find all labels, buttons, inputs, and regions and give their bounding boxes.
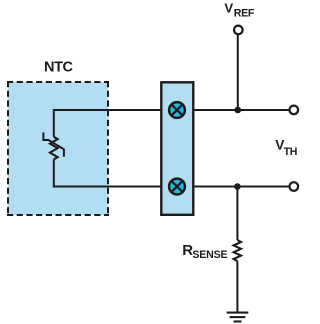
svg-text:V: V — [224, 1, 233, 16]
NTC dashed enclosure box — [7, 81, 109, 216]
svg-text:NTC: NTC — [44, 60, 74, 76]
wire: VREF vertical drop — [237, 35, 239, 111]
svg-text:TH: TH — [284, 146, 298, 158]
terminal VTH top circle — [290, 106, 299, 115]
thermistor RT (zigzag) — [50, 137, 58, 160]
thermistor NTC overlay line — [43, 132, 64, 156]
wire: block to VTH top terminal — [193, 109, 288, 111]
connector block rectangle — [161, 82, 193, 215]
ground symbol — [227, 313, 249, 322]
terminal VREF circle — [234, 26, 243, 35]
junction dot bottom — [234, 183, 241, 190]
svg-text:REF: REF — [234, 8, 255, 20]
wire: block to VTH bottom terminal — [193, 186, 288, 188]
wire: junction to RSENSE — [236, 187, 238, 241]
wire: thermistor bottom lead to connector block — [54, 159, 161, 186]
terminal X bottom — [169, 179, 185, 195]
resistor RSENSE (zigzag) — [234, 240, 241, 261]
terminal VTH bottom circle — [290, 182, 299, 191]
terminal X top — [169, 102, 185, 118]
wire: thermistor top lead to connector block — [54, 110, 161, 137]
wire: RSENSE to ground — [236, 261, 238, 311]
svg-text:SENSE: SENSE — [192, 249, 227, 261]
junction dot top — [235, 107, 242, 114]
